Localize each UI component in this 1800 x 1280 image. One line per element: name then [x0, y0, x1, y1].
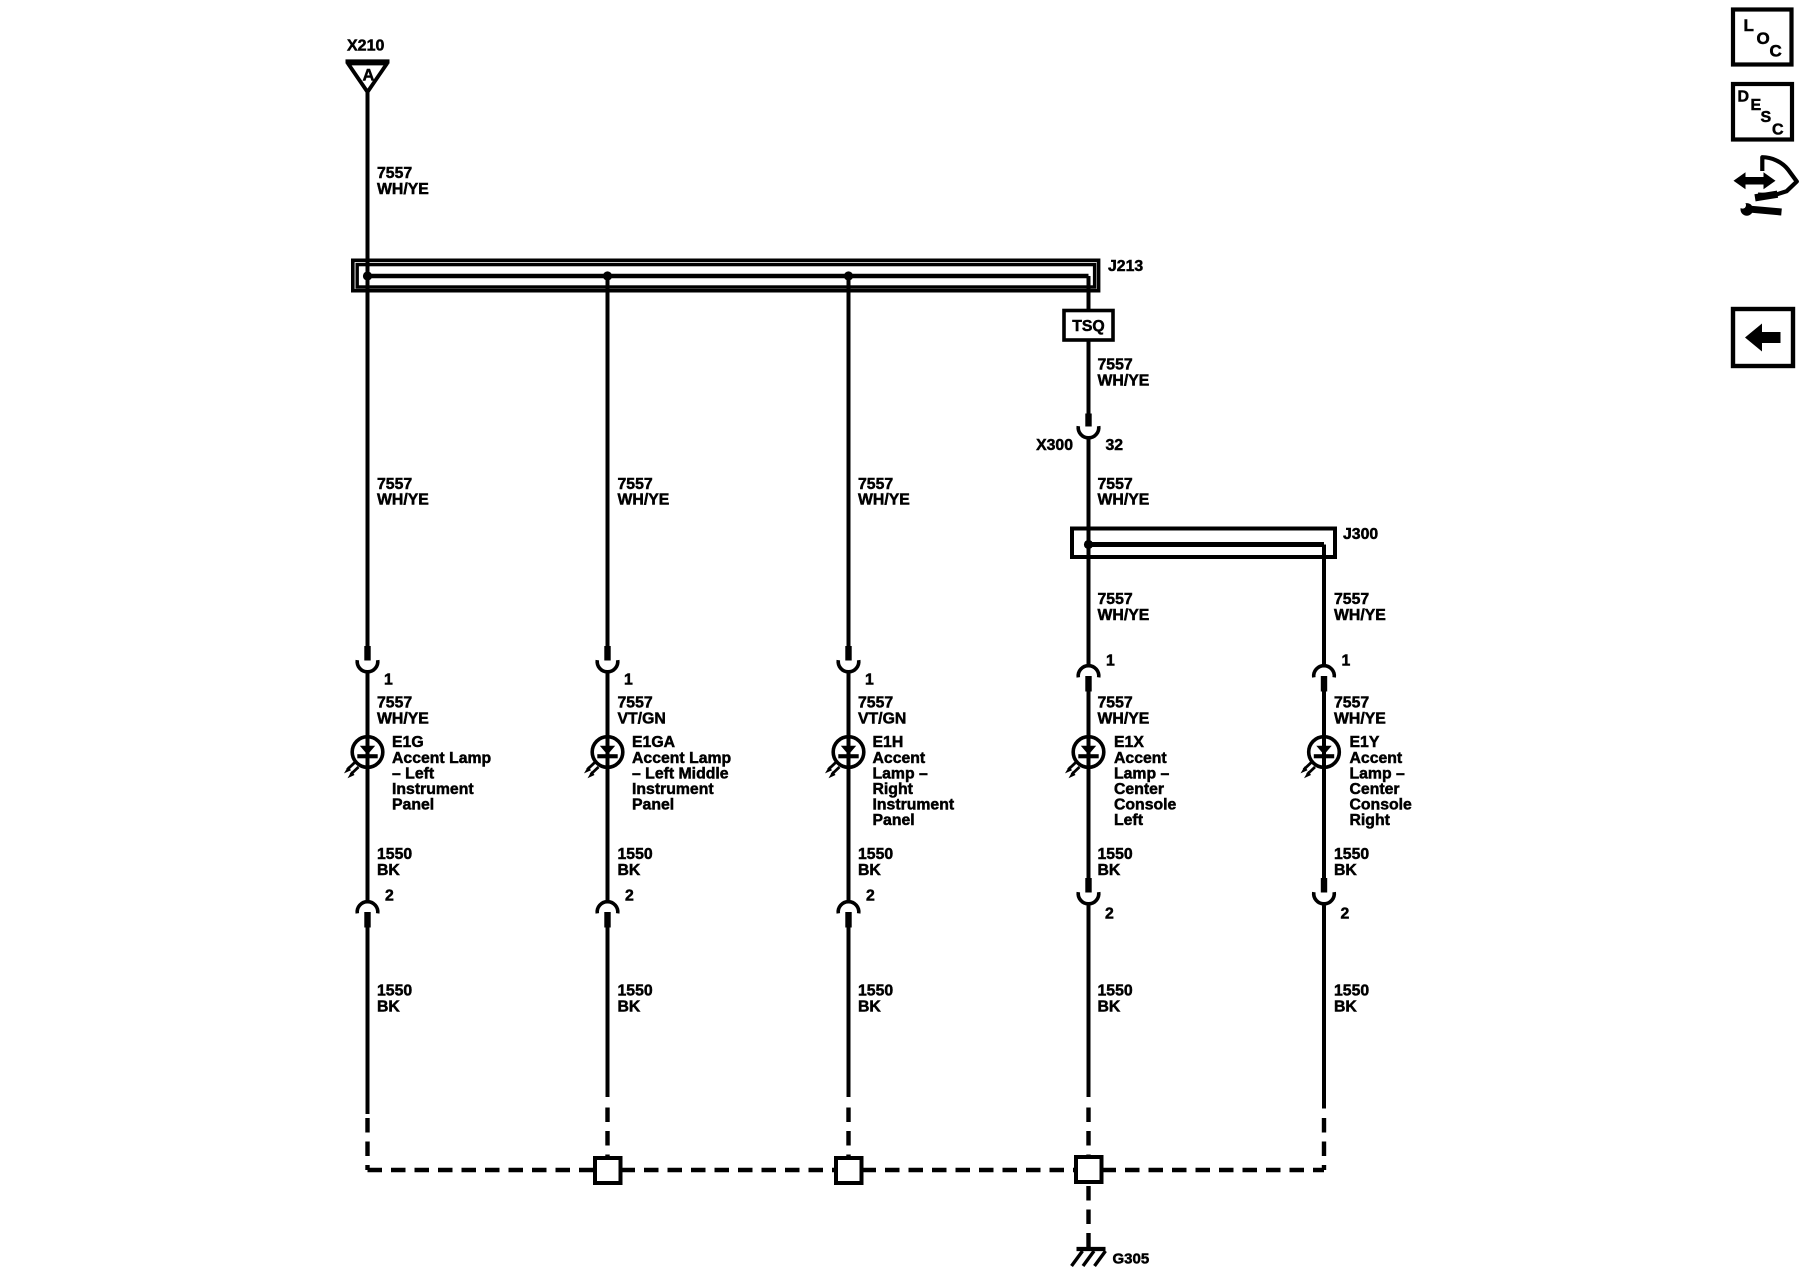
svg-text:1: 1 — [384, 672, 393, 689]
svg-text:BK: BK — [1098, 998, 1121, 1015]
wire label 1550 BK (lower, col3) — [858, 983, 893, 1016]
svg-text:1550: 1550 — [858, 846, 893, 863]
wire col5 pin2 down (1550 BK) — [1322, 906, 1326, 1109]
svg-text:WH/YE: WH/YE — [377, 492, 429, 509]
wire label 7557 WH/YE (top, col 1) — [377, 165, 429, 198]
wire label 7557 WH/YE (below J300, col4) — [1098, 591, 1150, 624]
junction node col1 on J213 — [363, 271, 372, 280]
ground G305 — [1072, 1249, 1150, 1268]
dashed ground bus segment col2-col3 — [621, 1168, 837, 1172]
svg-text:J300: J300 — [1343, 526, 1378, 543]
svg-text:G305: G305 — [1113, 1251, 1150, 1268]
wire col4 pin1 to pin2 through E1X — [1087, 692, 1091, 879]
wire col1 J213 to E1G pin 1 — [366, 259, 370, 647]
svg-text:O: O — [1757, 29, 1770, 48]
svg-text:1550: 1550 — [1334, 846, 1369, 863]
svg-text:WH/YE: WH/YE — [618, 492, 670, 509]
lamp E1G symbol — [344, 737, 383, 779]
svg-text:WH/YE: WH/YE — [858, 492, 910, 509]
dashed wire col4 splice to ground — [1086, 1186, 1090, 1247]
svg-text:X210: X210 — [347, 38, 384, 55]
dashed wire col5 down to ground bus — [1322, 1118, 1326, 1170]
svg-text:Left: Left — [1114, 812, 1144, 829]
dashed wire col3 down to splice — [846, 1108, 850, 1159]
svg-text:7557: 7557 — [1334, 695, 1369, 712]
lamp E1H description label — [873, 734, 955, 829]
svg-text:WH/YE: WH/YE — [1334, 710, 1386, 727]
svg-text:Lamp –: Lamp – — [1350, 765, 1406, 782]
svg-text:7557: 7557 — [1098, 591, 1133, 608]
wire col2 pin1 to pin2 through E1GA — [606, 672, 610, 901]
svg-text:WH/YE: WH/YE — [1098, 372, 1150, 389]
svg-text:7557: 7557 — [618, 695, 653, 712]
connector E1GA (pin 1) — [597, 646, 633, 689]
wire label 1550 BK (above pin 2, col3) — [858, 846, 893, 879]
splice box col2 — [595, 1158, 621, 1183]
svg-text:1: 1 — [1342, 653, 1351, 670]
svg-text:7557: 7557 — [1098, 357, 1133, 374]
wire label 1550 BK (above pin 2, col2) — [618, 846, 653, 879]
svg-text:Lamp –: Lamp – — [873, 765, 929, 782]
wire label 7557 WH/YE (mid, col2) — [618, 476, 670, 509]
svg-text:E1GA: E1GA — [632, 734, 675, 751]
svg-text:Instrument: Instrument — [632, 781, 714, 798]
svg-text:E1X: E1X — [1114, 734, 1144, 751]
svg-text:BK: BK — [377, 862, 400, 879]
svg-text:1550: 1550 — [618, 983, 653, 1000]
svg-text:1550: 1550 — [1098, 983, 1133, 1000]
svg-text:Instrument: Instrument — [392, 781, 474, 798]
lamp E1X symbol — [1065, 737, 1104, 779]
svg-text:1550: 1550 — [618, 846, 653, 863]
wire col3 J213 to E1H pin 1 — [847, 276, 851, 646]
svg-text:Instrument: Instrument — [873, 797, 955, 814]
svg-text:7557: 7557 — [1334, 591, 1369, 608]
connector E1Y (pin 1) — [1314, 653, 1351, 692]
svg-text:WH/YE: WH/YE — [377, 710, 429, 727]
wire X300 to J300 (7557 WH/YE) — [1087, 439, 1091, 528]
lamp E1GA symbol — [584, 737, 623, 779]
wire col5 J300 to E1Y pin 1 — [1322, 545, 1326, 665]
lamp E1Y description label — [1350, 734, 1413, 829]
svg-text:BK: BK — [1334, 998, 1357, 1015]
wire label 7557 WH/YE (mid, col3) — [858, 476, 910, 509]
wire label 7557 VT/GN (above lamp, col2) — [618, 695, 666, 728]
wire J213 to TSQ fuse — [1087, 276, 1091, 311]
svg-text:Panel: Panel — [392, 797, 434, 814]
wire label 7557 WH/YE (above lamp, col1) — [377, 695, 429, 728]
wire col3 pin1 to pin2 through E1H — [847, 672, 851, 901]
svg-text:Panel: Panel — [873, 812, 915, 829]
svg-text:– Left: – Left — [392, 765, 435, 782]
connector E1G (pin 1) — [357, 646, 393, 689]
svg-text:7557: 7557 — [377, 476, 412, 493]
svg-text:TSQ: TSQ — [1072, 318, 1104, 335]
svg-text:1550: 1550 — [1334, 983, 1369, 1000]
svg-text:BK: BK — [618, 998, 641, 1015]
svg-text:Center: Center — [1114, 781, 1164, 798]
connector X300 pin 32 — [1078, 414, 1099, 438]
svg-text:Center: Center — [1350, 781, 1400, 798]
connector E1X (pin 1) — [1078, 653, 1115, 692]
wire label 1550 BK (above pin 2, col4) — [1098, 846, 1133, 879]
svg-text:7557: 7557 — [618, 476, 653, 493]
wire col4 pin2 down (1550 BK) — [1087, 906, 1091, 1098]
svg-text:Accent Lamp: Accent Lamp — [632, 750, 731, 767]
svg-text:WH/YE: WH/YE — [1098, 607, 1150, 624]
svg-text:1550: 1550 — [377, 846, 412, 863]
wire label 1550 BK (above pin 2, col5) — [1334, 846, 1369, 879]
splice pack J300 — [1072, 526, 1378, 557]
lamp E1X description label — [1114, 734, 1177, 829]
svg-text:Console: Console — [1350, 797, 1413, 814]
svg-text:WH/YE: WH/YE — [1334, 607, 1386, 624]
svg-text:1: 1 — [1106, 653, 1115, 670]
svg-text:BK: BK — [618, 862, 641, 879]
svg-text:7557: 7557 — [1098, 695, 1133, 712]
svg-text:Right: Right — [873, 781, 914, 798]
icon back arrow button — [1733, 309, 1793, 366]
svg-text:E1H: E1H — [873, 734, 904, 751]
junction node col4 on J300 — [1084, 540, 1093, 549]
svg-text:Accent: Accent — [1114, 750, 1167, 767]
svg-text:1550: 1550 — [858, 983, 893, 1000]
splice box col4 — [1076, 1157, 1102, 1182]
wire label 7557 WH/YE (above lamp, col5) — [1334, 695, 1386, 728]
svg-text:32: 32 — [1106, 437, 1124, 454]
wire col3 pin2 down (1550 BK) — [847, 928, 851, 1098]
wire label 1550 BK (above pin 2, col1) — [377, 846, 412, 879]
connector E1Y (pin 2) — [1314, 878, 1350, 923]
connector E1H (pin 2) — [838, 888, 875, 928]
splice box col3 — [836, 1158, 862, 1183]
dashed wire col1 down to ground bus — [365, 1118, 369, 1170]
svg-text:VT/GN: VT/GN — [618, 710, 666, 727]
svg-text:S: S — [1761, 109, 1772, 126]
svg-text:BK: BK — [1098, 862, 1121, 879]
wire col1 pin2 down (1550 BK) — [366, 928, 370, 1115]
svg-text:A: A — [363, 67, 375, 85]
fuse TSQ — [1064, 311, 1113, 341]
wire col4 J300 to E1X pin 1 — [1087, 527, 1091, 665]
svg-text:1: 1 — [624, 672, 633, 689]
svg-text:WH/YE: WH/YE — [1098, 710, 1150, 727]
wire X210 to J213 (7557 WH/YE) — [366, 92, 370, 259]
connector E1GA (pin 2) — [597, 888, 634, 928]
svg-text:C: C — [1772, 122, 1784, 139]
svg-text:7557: 7557 — [377, 165, 412, 182]
dashed wire col4 down to splice — [1086, 1108, 1090, 1158]
wire label 1550 BK (lower, col5) — [1334, 983, 1369, 1016]
svg-text:BK: BK — [377, 998, 400, 1015]
dashed ground bus segment col3-col4 — [862, 1168, 1077, 1172]
wire TSQ to X300 (7557 WH/YE) — [1087, 340, 1091, 414]
lamp E1H symbol — [825, 737, 864, 779]
svg-text:2: 2 — [625, 888, 634, 905]
svg-text:Panel: Panel — [632, 797, 674, 814]
dashed ground bus segment col4-col5 — [1102, 1168, 1325, 1172]
svg-text:Accent: Accent — [873, 750, 926, 767]
svg-text:2: 2 — [866, 888, 875, 905]
svg-text:7557: 7557 — [858, 695, 893, 712]
svg-text:E1Y: E1Y — [1350, 734, 1380, 751]
svg-text:1: 1 — [865, 672, 874, 689]
svg-text:Right: Right — [1350, 812, 1391, 829]
svg-text:Lamp –: Lamp – — [1114, 765, 1170, 782]
icon diagnostic arrows and wrench — [1733, 157, 1797, 216]
svg-text:Accent: Accent — [1350, 750, 1403, 767]
svg-text:7557: 7557 — [1098, 476, 1133, 493]
junction node col3 on J213 — [844, 271, 853, 280]
icon LOC button — [1733, 10, 1792, 65]
junction node col2 on J213 — [603, 271, 612, 280]
svg-text:VT/GN: VT/GN — [858, 710, 906, 727]
dashed ground bus segment col1-col2 — [368, 1168, 596, 1172]
wire label 7557 WH/YE (above J300) — [1098, 476, 1150, 509]
svg-text:D: D — [1738, 89, 1750, 106]
svg-text:2: 2 — [385, 888, 394, 905]
wire label 7557 WH/YE (below TSQ) — [1098, 357, 1150, 390]
svg-text:BK: BK — [858, 998, 881, 1015]
svg-text:C: C — [1770, 42, 1782, 61]
wire label 7557 VT/GN (above lamp, col3) — [858, 695, 906, 728]
svg-text:Accent Lamp: Accent Lamp — [392, 750, 491, 767]
svg-text:1550: 1550 — [377, 983, 412, 1000]
svg-text:7557: 7557 — [858, 476, 893, 493]
wire label 1550 BK (lower, col2) — [618, 983, 653, 1016]
wire col2 J213 to E1GA pin 1 — [606, 276, 610, 646]
svg-text:X300: X300 — [1036, 437, 1073, 454]
connector E1H (pin 1) — [838, 646, 874, 689]
svg-text:J213: J213 — [1108, 258, 1143, 275]
lamp E1G description label — [392, 734, 491, 813]
connector E1X (pin 2) — [1078, 878, 1114, 923]
lamp E1GA description label — [632, 734, 731, 813]
wire col1 pin1 to pin2 through E1G — [366, 672, 370, 901]
connector X210 (triangle A) — [346, 38, 390, 93]
svg-text:E1G: E1G — [392, 734, 424, 751]
dashed wire col2 down to splice — [605, 1108, 609, 1159]
wire col2 pin2 down (1550 BK) — [606, 928, 610, 1098]
wire label 7557 WH/YE (mid, col1) — [377, 476, 429, 509]
svg-text:WH/YE: WH/YE — [1098, 492, 1150, 509]
svg-text:7557: 7557 — [377, 695, 412, 712]
connector E1G (pin 2) — [357, 888, 394, 928]
lamp E1Y symbol — [1301, 737, 1340, 779]
svg-text:BK: BK — [858, 862, 881, 879]
svg-text:L: L — [1744, 16, 1754, 35]
wire label 7557 WH/YE (below J300, col5) — [1334, 591, 1386, 624]
splice pack J213 — [353, 258, 1144, 291]
svg-text:2: 2 — [1105, 906, 1114, 923]
svg-text:2: 2 — [1341, 906, 1350, 923]
wire label 1550 BK (lower, col4) — [1098, 983, 1133, 1016]
wire label 1550 BK (lower, col1) — [377, 983, 412, 1016]
icon DESC button — [1733, 84, 1792, 140]
svg-text:1550: 1550 — [1098, 846, 1133, 863]
wire col5 pin1 to pin2 through E1Y — [1322, 692, 1326, 879]
svg-text:WH/YE: WH/YE — [377, 181, 429, 198]
svg-text:– Left Middle: – Left Middle — [632, 765, 729, 782]
svg-text:BK: BK — [1334, 862, 1357, 879]
svg-text:Console: Console — [1114, 797, 1177, 814]
wire label 7557 WH/YE (above lamp, col4) — [1098, 695, 1150, 728]
